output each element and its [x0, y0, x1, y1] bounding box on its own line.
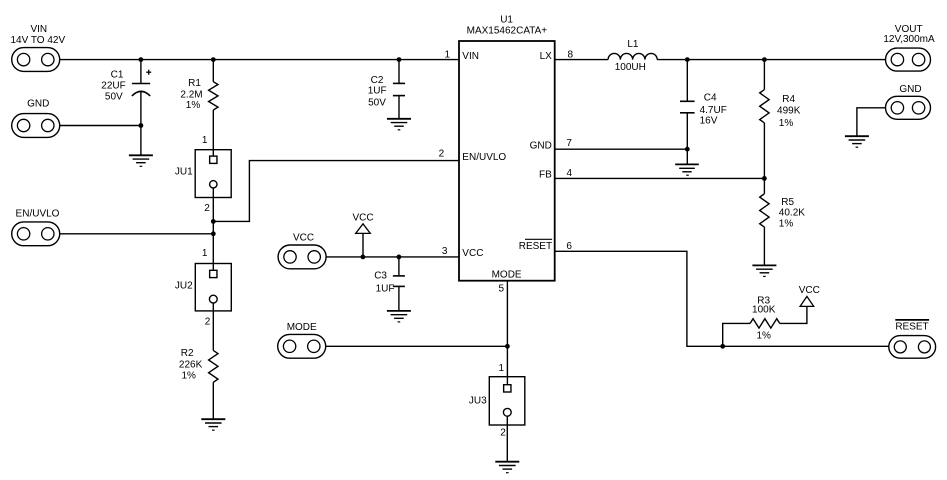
- wire VIN rail: [60, 59, 459, 61]
- svg-text:VIN: VIN: [30, 24, 47, 35]
- svg-text:R5: R5: [781, 197, 794, 208]
- svg-text:1%: 1%: [186, 100, 201, 111]
- svg-text:50V: 50V: [105, 92, 123, 103]
- capacitor C3: [374, 257, 405, 311]
- svg-text:C1: C1: [111, 70, 124, 81]
- power VCC symbol left: [352, 213, 373, 257]
- U1 pin 6 label RESET: [519, 239, 573, 252]
- svg-text:RESET: RESET: [519, 241, 552, 252]
- ground C1: [129, 155, 153, 166]
- ground GND-right: [845, 136, 869, 147]
- ground C4: [675, 164, 699, 175]
- junction dot FB/R4/R5: [762, 176, 767, 181]
- junction dot C1 gnd wire: [139, 123, 144, 128]
- svg-text:1%: 1%: [779, 118, 794, 129]
- svg-text:GND: GND: [899, 84, 921, 95]
- svg-text:VCC: VCC: [352, 213, 373, 224]
- junction dot C2 top: [397, 57, 402, 62]
- svg-text:1UF: 1UF: [376, 283, 395, 294]
- wire EN/UVLO connector: [60, 233, 214, 235]
- connector J-VCC: [278, 232, 326, 268]
- svg-text:12V,300mA: 12V,300mA: [883, 34, 935, 45]
- junction dot EN/UVLO: [211, 231, 216, 236]
- wire U1 pin4 FB: [555, 177, 765, 179]
- svg-text:6: 6: [566, 241, 572, 252]
- svg-text:5: 5: [499, 283, 505, 294]
- jumper JU3: [469, 363, 525, 439]
- connector J-GND right: [886, 84, 931, 120]
- wire VCC net to U1 pin3: [326, 256, 459, 258]
- svg-text:499K: 499K: [777, 106, 801, 117]
- svg-text:FB: FB: [539, 169, 552, 180]
- connector J-RESET: [889, 320, 936, 358]
- ground R2: [201, 419, 225, 430]
- svg-text:MODE: MODE: [287, 322, 317, 333]
- svg-text:JU3: JU3: [469, 395, 487, 406]
- svg-text:R4: R4: [782, 94, 795, 105]
- svg-text:VIN: VIN: [462, 51, 479, 62]
- svg-text:C4: C4: [704, 93, 717, 104]
- U1 pin 4 label FB: [539, 168, 573, 180]
- svg-text:1%: 1%: [756, 330, 771, 341]
- resistor R5: [760, 178, 806, 265]
- svg-text:1: 1: [499, 363, 505, 374]
- svg-text:JU2: JU2: [175, 281, 193, 292]
- svg-text:2.2M: 2.2M: [180, 89, 202, 100]
- svg-text:RESET: RESET: [895, 321, 928, 332]
- svg-text:2: 2: [204, 203, 210, 214]
- svg-text:22UF: 22UF: [101, 80, 125, 91]
- svg-text:MAX15462CATA+: MAX15462CATA+: [467, 25, 548, 36]
- svg-text:EN/UVLO: EN/UVLO: [462, 152, 506, 163]
- svg-text:2: 2: [205, 317, 211, 328]
- wire MODE net: [326, 345, 508, 347]
- junction dot JU1/pin2: [211, 219, 216, 224]
- svg-text:VCC: VCC: [799, 285, 820, 296]
- wire JU2 to R2: [212, 303, 214, 350]
- ground R5: [752, 265, 776, 276]
- wire JU3 to ground: [506, 416, 508, 461]
- capacitor C4: [680, 60, 727, 164]
- inductor L1: [608, 39, 657, 73]
- svg-text:JU1: JU1: [175, 167, 193, 178]
- U1 pin 2 label EN/UVLO: [439, 149, 507, 163]
- junction dot C3 top: [397, 255, 402, 260]
- U1 pin 8 label LX: [540, 49, 574, 62]
- svg-text:1UF: 1UF: [368, 86, 387, 97]
- U1 pin 7 label GND: [530, 138, 573, 152]
- svg-text:1: 1: [202, 135, 208, 146]
- svg-text:MODE: MODE: [492, 270, 522, 281]
- junction dot VCC symbol: [361, 255, 366, 260]
- svg-text:4: 4: [567, 168, 573, 179]
- ground C2: [387, 119, 411, 130]
- svg-text:1: 1: [445, 49, 451, 60]
- svg-text:50V: 50V: [368, 98, 386, 109]
- capacitor C2: [368, 60, 405, 119]
- wire U1 pin6 RESET net: [555, 251, 889, 346]
- svg-text:40.2K: 40.2K: [779, 208, 805, 219]
- wire GND-right connector: [857, 108, 886, 136]
- connector J-VIN: [10, 24, 65, 72]
- svg-text:GND: GND: [27, 98, 49, 109]
- junction dot R1 top: [211, 57, 216, 62]
- svg-text:L1: L1: [627, 39, 639, 50]
- wire U1 pin5 down to JU3: [506, 281, 508, 385]
- wire GND-left to C1: [60, 125, 141, 127]
- svg-text:C2: C2: [371, 75, 384, 86]
- capacitor C1: [101, 60, 151, 156]
- wire LX to L1: [555, 59, 608, 61]
- svg-text:7: 7: [566, 138, 572, 149]
- svg-text:3: 3: [442, 246, 448, 257]
- svg-text:16V: 16V: [700, 115, 718, 126]
- wire L1 to VOUT: [657, 59, 885, 61]
- svg-text:1%: 1%: [181, 371, 196, 382]
- ground C3: [387, 311, 411, 322]
- svg-text:2: 2: [439, 149, 445, 160]
- svg-text:1%: 1%: [779, 219, 794, 230]
- jumper JU2: [175, 248, 231, 327]
- svg-text:100UH: 100UH: [615, 62, 646, 73]
- svg-text:VCC: VCC: [293, 232, 314, 243]
- resistor R3: [723, 296, 807, 347]
- resistor R4: [760, 60, 801, 179]
- connector J-EN/UVLO: [12, 208, 60, 245]
- resistor R2: [179, 348, 218, 419]
- junction dot R4 top: [762, 57, 767, 62]
- wire JU1 pin2 down: [212, 188, 214, 270]
- svg-text:8: 8: [568, 49, 574, 60]
- svg-text:14V TO 42V: 14V TO 42V: [10, 35, 65, 46]
- svg-text:2: 2: [500, 428, 506, 439]
- svg-text:U1: U1: [500, 15, 513, 26]
- svg-text:C3: C3: [374, 271, 387, 282]
- connector J-GND left: [12, 98, 60, 137]
- svg-text:R1: R1: [188, 78, 201, 89]
- power VCC symbol right: [799, 285, 820, 306]
- svg-text:R2: R2: [181, 348, 194, 359]
- U1 pin 3 label VCC: [442, 246, 484, 259]
- svg-text:VCC: VCC: [462, 248, 483, 259]
- wire U1 pin7 GND: [555, 148, 688, 150]
- connector J-VOUT: [883, 24, 935, 71]
- resistor R1: [180, 60, 218, 157]
- junction dot pin7/C4: [685, 147, 690, 152]
- U1 pin 5 label MODE: [492, 270, 522, 295]
- svg-text:100K: 100K: [752, 304, 776, 315]
- jumper JU1: [175, 135, 231, 214]
- svg-text:1: 1: [202, 248, 208, 259]
- junction dot C4 top: [685, 57, 690, 62]
- svg-text:GND: GND: [530, 140, 552, 151]
- U1 pin 1 label VIN: [445, 49, 479, 62]
- junction dot MODE: [505, 344, 510, 349]
- junction dot C1 top: [139, 57, 144, 62]
- svg-text:226K: 226K: [179, 359, 203, 370]
- ground JU3: [495, 462, 519, 473]
- svg-text:LX: LX: [540, 51, 553, 62]
- svg-text:EN/UVLO: EN/UVLO: [16, 208, 60, 219]
- wire JU1 to U1 pin2: [213, 161, 459, 222]
- junction dot R3: [720, 344, 725, 349]
- op-amp U1 MAX15462CATA+ body: [459, 15, 555, 281]
- connector J-MODE: [278, 322, 326, 358]
